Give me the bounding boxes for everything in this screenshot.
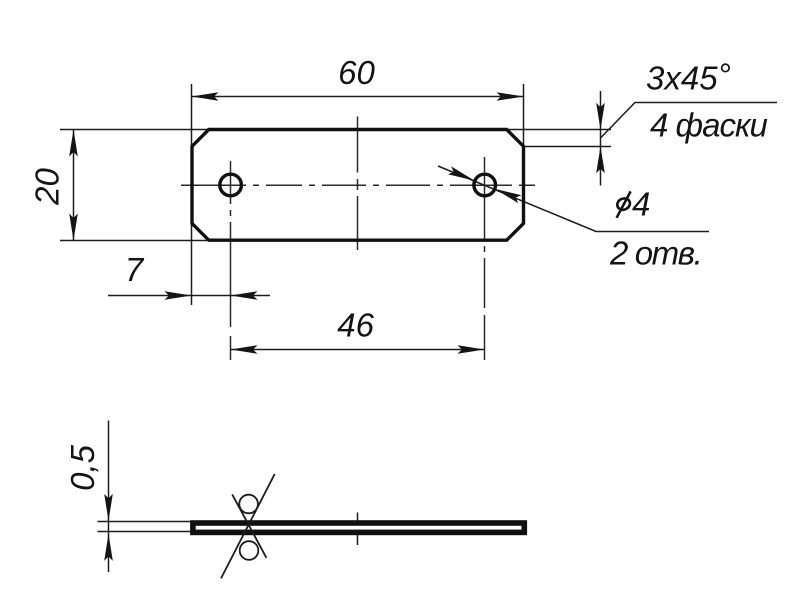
svg-text:0,5: 0,5 [64, 444, 101, 491]
svg-text:46: 46 [337, 307, 374, 344]
svg-text:3x45°: 3x45° [646, 57, 731, 97]
svg-text:20: 20 [29, 168, 66, 206]
svg-text:4: 4 [632, 186, 650, 223]
svg-text:2 отв.: 2 отв. [609, 234, 701, 271]
svg-text:7: 7 [125, 251, 145, 288]
svg-text:60: 60 [338, 54, 375, 91]
svg-text:4 фаски: 4 фаски [650, 107, 768, 144]
